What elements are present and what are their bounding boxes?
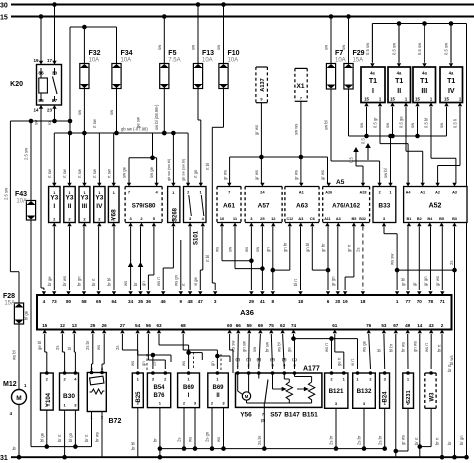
svg-text:bl ge: bl ge [39, 432, 44, 442]
svg-text:7: 7 [300, 96, 302, 100]
wire A76 A28 up with arrow to A5 [362, 166, 364, 183]
wire A36 pin54 to B54 pin3 [137, 334, 139, 355]
svg-text:Y3: Y3 [66, 195, 74, 202]
fuse F29 15A [344, 64, 353, 90]
wire rail to F43 [30, 121, 32, 201]
svg-text:br gn: br gn [77, 276, 82, 286]
svg-text:73: 73 [52, 299, 58, 304]
svg-text:15: 15 [390, 97, 395, 102]
svg-text:14: 14 [33, 108, 39, 113]
wire F43 bottom long [30, 220, 32, 447]
svg-text:T1: T1 [447, 78, 455, 85]
svg-text:A11: A11 [324, 217, 330, 221]
svg-text:vi ge: vi ge [193, 276, 198, 286]
wire A36 pin14 to rail31 [419, 334, 421, 457]
wire A36 pin27 to B25 pin1 [121, 334, 123, 350]
svg-text:5: 5 [271, 364, 273, 368]
svg-text:gr ws: gr ws [401, 435, 406, 445]
svg-text:sw ge: sw ge [149, 166, 154, 178]
svg-text:A26: A26 [325, 191, 332, 195]
injector Y3 III [79, 187, 90, 223]
wire subrail B to rail31 [159, 449, 161, 458]
svg-text:rt bl: rt bl [205, 163, 210, 170]
svg-text:br: br [447, 441, 452, 445]
svg-text:F5: F5 [168, 50, 176, 57]
svg-text:14: 14 [417, 323, 423, 328]
svg-text:15A: 15A [353, 58, 364, 64]
svg-text:ge sw: ge sw [136, 116, 141, 128]
wire A52 B1 to A36 pin77 [407, 227, 409, 291]
svg-text:gr gn: gr gn [423, 276, 428, 286]
wire B69I pin2 to subrail [183, 408, 185, 449]
svg-text:br rt: br rt [91, 278, 96, 286]
svg-text:25: 25 [260, 216, 265, 221]
wire A36 pin68 to B69II pin1 [182, 334, 184, 350]
svg-text:60: 60 [227, 323, 233, 328]
svg-text:br ge: br ge [47, 276, 52, 286]
wire A36 pin15 to Y104 pin2 [44, 334, 46, 352]
svg-text:15A: 15A [4, 301, 15, 307]
throttle unit Y56 S57 B147 B151 [236, 373, 322, 407]
svg-text:62: 62 [280, 323, 286, 328]
svg-text:I: I [372, 88, 374, 95]
wire A36 pin59 to Y56 pin2 [248, 334, 251, 369]
svg-text:8: 8 [272, 299, 275, 304]
svg-text:10A: 10A [89, 58, 100, 64]
svg-text:9: 9 [260, 98, 262, 102]
wire A36 pin74 junction [293, 334, 295, 339]
wire A36 pin43 to W3 pin [430, 334, 432, 369]
svg-text:gr rt: gr rt [346, 244, 351, 252]
wire F32 top [83, 27, 85, 64]
svg-text:bl: bl [67, 347, 72, 350]
switch S101 [184, 187, 207, 223]
wire A76 pinB32 to A36 pin18 screened [362, 227, 364, 291]
svg-text:br ws: br ws [401, 342, 406, 352]
wire A52 B3 down right side to rail31 [454, 227, 456, 458]
svg-text:29: 29 [249, 299, 255, 304]
svg-text:B5: B5 [439, 217, 444, 221]
wire rail to S79 jumper [152, 133, 154, 158]
svg-text:B33: B33 [378, 203, 390, 210]
svg-text:34: 34 [128, 299, 134, 304]
node subrail B [160, 448, 385, 450]
svg-text:2s: 2s [152, 362, 157, 366]
svg-text:70: 70 [417, 299, 423, 304]
svg-text:gr ws: gr ws [254, 170, 259, 180]
svg-text:gn ws: gn ws [413, 341, 418, 352]
svg-text:br: br [133, 282, 138, 286]
sensor B54/B76 [147, 373, 170, 408]
wire rail to A57 pin24 [260, 157, 262, 183]
svg-text:ws bl: ws bl [12, 350, 17, 360]
svg-text:26: 26 [102, 323, 108, 328]
wire A36 pin13 to B30 pin4 [73, 334, 75, 352]
wire T1 II pin15 [392, 107, 394, 136]
svg-text:ge rt: ge rt [336, 357, 341, 366]
svg-text:C6: C6 [310, 216, 316, 221]
sensor feed rail [230, 156, 328, 158]
svg-text:41: 41 [260, 299, 266, 304]
wire T1 II 4a [398, 24, 400, 63]
svg-text:59: 59 [247, 323, 253, 328]
svg-text:I: I [53, 203, 55, 210]
svg-text:br sw: br sw [265, 341, 270, 352]
wire S231 pin2 joins pin67 wire [407, 408, 409, 451]
svg-text:br gn: br gn [459, 435, 464, 445]
svg-text:S79/S80: S79/S80 [132, 203, 156, 210]
relay K20 [37, 65, 62, 106]
sensor S79/S80 [125, 187, 162, 223]
svg-text:br rt: br rt [57, 434, 62, 442]
svg-text:19: 19 [343, 299, 349, 304]
wire T1 III pin1 to A52 A3 [430, 107, 432, 159]
svg-text:A1: A1 [420, 191, 425, 195]
svg-text:77: 77 [405, 299, 411, 304]
svg-text:B151: B151 [302, 412, 318, 419]
svg-text:gr ws: gr ws [254, 125, 259, 135]
svg-text:F7: F7 [335, 50, 343, 57]
svg-text:ws: ws [96, 345, 101, 350]
wire T1 IV pin1 to A52 A2 [459, 107, 461, 166]
svg-text:63: 63 [156, 323, 162, 328]
wire F10 top to net30 [223, 5, 225, 64]
svg-text:br ws: br ws [62, 276, 67, 286]
wire B33 pin3 to A36 pin1 [383, 227, 385, 234]
wire A61 pin11 join A57 pin25 [234, 227, 236, 269]
svg-text:10: 10 [220, 216, 225, 221]
ignition coil T1 III [413, 67, 436, 103]
sensor B24 [380, 373, 390, 408]
wire B30 pin3 to subrail [74, 410, 76, 447]
connector A63 [285, 187, 319, 223]
wire A63 pinA3 to A36 pin18 [300, 227, 302, 291]
wire F29 bottom to coil 15 rail [348, 89, 350, 136]
svg-text:65: 65 [96, 299, 102, 304]
svg-text:0.5 sw: 0.5 sw [365, 42, 370, 55]
svg-text:rt sw: rt sw [92, 118, 97, 128]
wire F13 top to net30 [197, 5, 199, 64]
sensor B30 [60, 373, 79, 410]
sensor B121 [325, 373, 348, 408]
wire Y3 I pin2 to A36 pin73 [53, 227, 55, 291]
wire F7 top to net15 [330, 17, 332, 64]
svg-text:II: II [68, 203, 72, 210]
svg-text:0.5 li: 0.5 li [453, 119, 458, 128]
svg-text:0.5 gr: 0.5 gr [373, 117, 378, 128]
wire A36 pin69 to Y56 pin3 [259, 334, 261, 369]
svg-text:gr ws: gr ws [435, 276, 440, 286]
wire A52 B2 to A36 pin70 [418, 227, 420, 291]
wire F32 bottom to injector rail [83, 86, 85, 134]
wire S79 pin5 to A36 pin36 [153, 227, 155, 276]
svg-text:18: 18 [360, 299, 366, 304]
svg-text:10A: 10A [335, 58, 346, 64]
wire A57 pin25 to A36 pin41 [261, 227, 263, 291]
svg-text:2s gn: 2s gn [205, 431, 210, 442]
svg-text:49: 49 [405, 323, 411, 328]
node sensor ground link rail [294, 338, 358, 340]
svg-text:2s: 2s [115, 346, 120, 350]
svg-text:br ws: br ws [95, 432, 100, 442]
wire X1 pin7 down [300, 101, 302, 157]
svg-text:15: 15 [364, 97, 369, 102]
switch S268 [168, 187, 180, 223]
wire W3 joins pin14 wire [430, 408, 432, 446]
svg-text:69: 69 [258, 323, 264, 328]
svg-text:vi rt: vi rt [350, 358, 355, 366]
injector Y3 IV [94, 187, 105, 223]
ignition coil T1 II [388, 67, 411, 103]
node S79 feed jumper [129, 157, 157, 159]
svg-text:bl: bl [377, 349, 382, 352]
svg-text:gr ws: gr ws [320, 170, 325, 180]
svg-text:3: 3 [258, 364, 260, 368]
svg-text:B121: B121 [329, 388, 344, 395]
injector supply rail [54, 132, 188, 134]
wire rail to S101 pin2 [187, 133, 189, 183]
wire A36 pin76 to B132 pin2 [369, 334, 371, 369]
wire Y56 pin7 to subrail [263, 407, 265, 448]
wire A57 pin3 to A36 pin29 [250, 227, 252, 291]
svg-text:gn sw: gn sw [242, 340, 247, 352]
svg-text:F32: F32 [89, 50, 101, 57]
wire A36 pin75 to Y56 pin5 [271, 334, 272, 369]
svg-text:87: 87 [52, 98, 58, 104]
ECU A36 [37, 295, 452, 330]
svg-text:rt sw: rt sw [62, 168, 67, 178]
wire S101 pin3 to A36 pin48 [189, 227, 191, 291]
wire S79 pin3 to A36 pin34 [130, 227, 132, 291]
svg-text:10A: 10A [16, 199, 27, 205]
wire rail to S268 [172, 133, 174, 183]
wire Y3 II pin2 to A36 pin80 [69, 227, 71, 291]
svg-text:0.5: 0.5 [349, 157, 354, 163]
svg-text:M12: M12 [3, 381, 17, 388]
ignition coil T1 IV [440, 67, 463, 103]
svg-text:sw ge: sw ge [122, 166, 127, 178]
valve Y68 [108, 187, 119, 223]
svg-text:ws sw: ws sw [390, 253, 395, 265]
node relay output rail [10, 120, 70, 122]
svg-text:bl rt: bl rt [293, 278, 298, 286]
svg-text:A3: A3 [336, 217, 341, 221]
coil terminal 15 rail [349, 135, 447, 137]
A36 top pins [42, 291, 446, 304]
sensor B69 II [208, 373, 229, 408]
svg-text:36: 36 [146, 299, 152, 304]
svg-text:ws ge: ws ge [362, 340, 367, 352]
net 30 bus [11, 4, 474, 6]
svg-text:gr gn: gr gn [330, 276, 335, 286]
svg-text:A2: A2 [435, 191, 440, 195]
svg-text:0.5 sw: 0.5 sw [417, 42, 422, 55]
svg-text:gn: gn [141, 361, 146, 366]
svg-text:30: 30 [0, 3, 8, 10]
svg-text:ws rt: ws rt [424, 342, 429, 352]
svg-text:80: 80 [66, 299, 72, 304]
svg-text:74: 74 [291, 323, 297, 328]
svg-text:K20: K20 [10, 81, 23, 88]
svg-text:gr: gr [412, 282, 417, 286]
svg-text:2s: 2s [355, 248, 360, 252]
svg-text:30: 30 [52, 71, 58, 77]
svg-text:24: 24 [260, 190, 265, 195]
svg-text:T1: T1 [369, 78, 377, 85]
svg-text:4: 4 [43, 299, 46, 304]
wire A36 pin2 to rail31 [441, 334, 443, 457]
net 15 bus [11, 16, 474, 18]
wire F29 top to net15 [348, 17, 350, 64]
svg-text:sw bl: sw bl [383, 168, 388, 178]
svg-text:rt sw: rt sw [47, 168, 52, 178]
sensor B25 [132, 373, 143, 408]
svg-text:4a: 4a [397, 71, 402, 76]
svg-text:F13: F13 [202, 50, 214, 57]
svg-text:br rt: br rt [437, 344, 442, 352]
svg-text:10A: 10A [121, 58, 132, 64]
svg-text:17: 17 [47, 58, 53, 63]
wire A36 pin62 to Y56 pin4 [283, 334, 285, 369]
wire rail to A76 pinA26 [327, 157, 329, 183]
svg-text:gn: gn [210, 361, 215, 366]
svg-text:Y3: Y3 [50, 195, 58, 202]
svg-text:58: 58 [81, 299, 87, 304]
wire T1 III pin15 [417, 107, 419, 136]
svg-text:2: 2 [248, 364, 250, 368]
svg-text:4a: 4a [370, 71, 375, 76]
wire A76 pinA11 to A36 pin6 [327, 227, 329, 291]
svg-text:rt sw: rt sw [92, 168, 97, 178]
wire T1 I 4a [371, 24, 373, 63]
wire A137 pin9 down [260, 103, 262, 157]
svg-text:IV: IV [96, 203, 103, 210]
svg-text:(5): (5) [282, 358, 287, 362]
wire A52 B5 to A36 pin71 [441, 227, 443, 291]
svg-text:br: br [153, 438, 158, 442]
svg-text:15: 15 [415, 97, 420, 102]
sensor B132 [353, 373, 376, 408]
wire B69II pin2 to subrail [211, 408, 213, 449]
wire F10 bottom to A36 pin3 [223, 86, 225, 128]
svg-text:8: 8 [293, 364, 295, 368]
svg-text:rt bl: rt bl [205, 255, 210, 262]
wire B72 pin1 to subrail [91, 412, 93, 447]
svg-text:ws: ws [215, 247, 220, 252]
svg-text:A63: A63 [296, 203, 308, 210]
svg-text:Y3: Y3 [80, 195, 88, 202]
wire A52 B4 to A36 pin78 [430, 227, 432, 291]
svg-text:6: 6 [327, 299, 330, 304]
svg-text:ge bl: ge bl [37, 341, 42, 350]
svg-text:F10: F10 [228, 50, 240, 57]
svg-text:B3: B3 [452, 217, 457, 221]
svg-text:A57: A57 [258, 203, 270, 210]
ignition coil T1 I [361, 67, 385, 103]
wire A36 pin66 to Y56 pin1 [237, 334, 240, 369]
svg-text:F29: F29 [353, 50, 365, 57]
wire Y3 III pin2 to A36 pin58 [83, 227, 85, 291]
svg-text:1: 1 [237, 364, 239, 368]
wire link to B132 pin1 [357, 339, 359, 369]
svg-text:III: III [421, 88, 427, 95]
svg-text:20: 20 [335, 299, 341, 304]
wire A36 pin49 to S231 pin1 [407, 334, 409, 369]
svg-text:64: 64 [111, 299, 117, 304]
wire A57 pin12 to A36 pin8 [272, 227, 274, 291]
svg-text:A36: A36 [240, 308, 254, 317]
ground rail 31 [11, 456, 469, 458]
svg-text:23: 23 [47, 108, 53, 113]
fuse F32 10A [80, 64, 89, 89]
wire rail to A61 pin7 [229, 157, 231, 183]
svg-text:B147: B147 [284, 412, 300, 419]
svg-text:43: 43 [429, 323, 435, 328]
wire B132 pin3 to subrail [363, 408, 365, 448]
svg-text:B76: B76 [153, 393, 165, 399]
svg-text:9: 9 [180, 299, 183, 304]
svg-text:46: 46 [161, 299, 167, 304]
svg-text:gr br: gr br [321, 243, 326, 252]
svg-text:A52: A52 [429, 203, 442, 210]
svg-text:gr bl: gr bl [401, 278, 406, 286]
svg-text:B54: B54 [153, 385, 165, 391]
connector A76/A162 [323, 187, 370, 223]
svg-text:B30: B30 [63, 393, 75, 400]
svg-text:(6): (6) [257, 358, 262, 362]
wire K20 pin19 to net15 [40, 17, 42, 65]
svg-text:rt sw: rt sw [77, 168, 82, 178]
svg-text:C12: C12 [287, 217, 294, 221]
svg-text:54: 54 [135, 323, 141, 328]
svg-text:IV: IV [448, 88, 455, 95]
svg-text:35: 35 [138, 299, 144, 304]
svg-text:0.5 bl: 0.5 bl [424, 118, 429, 128]
svg-text:A137: A137 [260, 78, 266, 91]
fuse F34 10A [112, 64, 121, 89]
fuse F7 10A [326, 64, 335, 90]
svg-text:rt sw: rt sw [106, 168, 111, 178]
svg-text:sw bl (08.98-): sw bl (08.98-) [154, 104, 159, 130]
wire T1 III 4a [424, 24, 426, 63]
svg-text:15: 15 [42, 323, 48, 328]
svg-text:10A: 10A [228, 58, 239, 64]
svg-text:M: M [245, 394, 249, 399]
node link to A52 B3 wire [397, 269, 454, 271]
wire A36 pin25 to B72 pin3 [92, 334, 94, 364]
svg-text:76: 76 [366, 323, 372, 328]
svg-text:2.5 sw: 2.5 sw [4, 187, 9, 200]
svg-text:S101: S101 [194, 230, 200, 245]
svg-text:ws bl: ws bl [277, 342, 282, 352]
svg-text:II: II [216, 393, 220, 399]
svg-text:15: 15 [444, 97, 449, 102]
svg-text:7.5A: 7.5A [168, 58, 180, 64]
arrow wire [367, 148, 369, 160]
wire F28 bottom to M12 [18, 324, 20, 389]
wire B72 pin2 to rail31 [101, 412, 103, 458]
svg-text:78: 78 [428, 299, 434, 304]
svg-text:W3: W3 [430, 392, 436, 402]
wire B30 pin1 to rail31 [64, 410, 66, 457]
svg-text:B5: B5 [351, 217, 356, 221]
svg-text:19: 19 [33, 58, 39, 63]
wire A63 pinC12 join A57 pin12 wire [289, 227, 291, 271]
wire A36 pin56 to B54 pin2 [147, 334, 149, 360]
connector X1 [295, 68, 307, 101]
wire S79 pin2 to A36 pin35 [140, 227, 142, 291]
svg-text:ws: ws [244, 247, 249, 252]
